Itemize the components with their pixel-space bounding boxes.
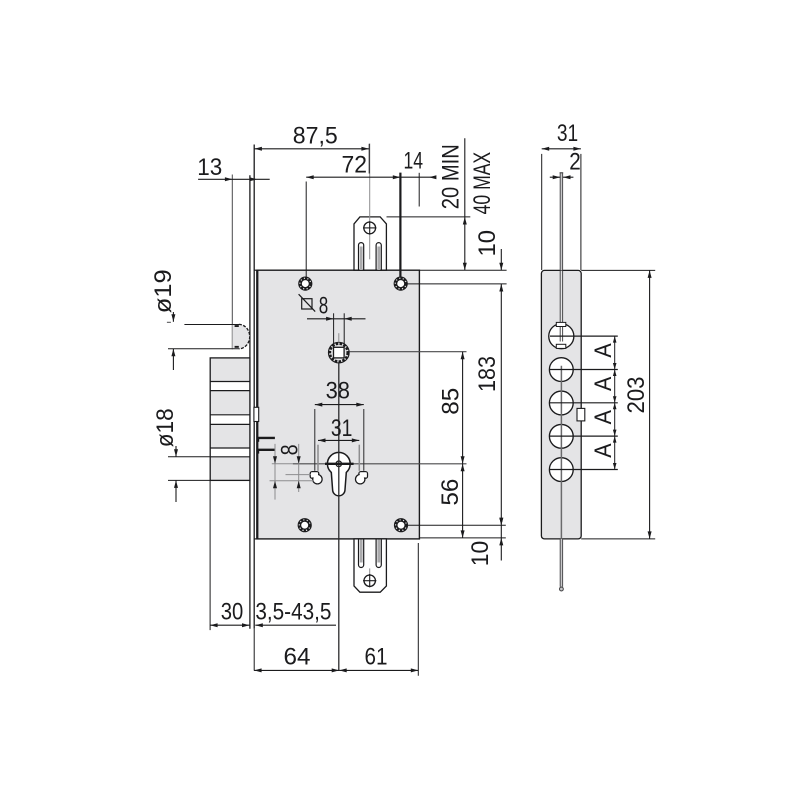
latch bolt (front view)	[232, 324, 249, 348]
dimension o19	[150, 269, 239, 370]
svg-text:2: 2	[569, 149, 581, 176]
dimension 61	[339, 543, 418, 676]
dimension 30	[210, 480, 249, 630]
svg-text:183: 183	[474, 356, 501, 392]
svg-text:87,5: 87,5	[293, 122, 338, 149]
dimension A spacing	[590, 336, 617, 469]
svg-text:30: 30	[221, 599, 244, 626]
dimension 31 plate	[542, 120, 581, 270]
dimension 64	[254, 643, 339, 672]
keyhole centerline horizontal	[272, 463, 467, 465]
svg-text:31: 31	[331, 415, 353, 442]
control rod inside plate	[560, 366, 562, 539]
square follower 8mm	[328, 342, 349, 363]
dimension o18	[152, 408, 210, 502]
faceplate side view plate	[541, 270, 581, 539]
svg-text:A: A	[590, 443, 617, 457]
control rod upper	[560, 173, 564, 271]
svg-text:8: 8	[277, 444, 304, 455]
dimension 10 bottom	[408, 518, 506, 567]
svg-text:20 MIN: 20 MIN	[438, 144, 465, 209]
dimension 8 keyhole	[273, 444, 304, 500]
dimension 56	[437, 464, 465, 538]
latch reference line	[231, 175, 233, 350]
svg-text:14: 14	[403, 148, 423, 175]
faceplate pointer lines	[258, 438, 276, 454]
left cam pin	[310, 472, 322, 484]
plate edge notch	[577, 408, 585, 421]
dimension 20 MIN / 40 MAX	[387, 138, 507, 284]
svg-text:13: 13	[197, 154, 222, 181]
svg-text:10: 10	[474, 230, 501, 256]
svg-text:ø19: ø19	[150, 269, 177, 313]
dimension 72	[306, 152, 400, 278]
dimension 10 top	[474, 230, 503, 291]
dimension 14	[400, 148, 436, 207]
mounting holes	[298, 277, 407, 532]
svg-text:56: 56	[437, 479, 464, 506]
svg-text:31: 31	[557, 120, 578, 147]
keyhole centerline vertical	[338, 363, 340, 671]
dimension 183	[474, 284, 503, 525]
svg-text:ø18: ø18	[152, 408, 179, 447]
deadbolt block (4 bolts)	[210, 358, 250, 481]
dimension 31 cylinder	[318, 415, 359, 471]
svg-text:A: A	[590, 410, 617, 424]
right cam pin	[356, 472, 368, 484]
dimension 2 rod	[550, 149, 581, 180]
svg-text:203: 203	[623, 377, 650, 414]
dimension 3,5-43,5	[255, 599, 336, 628]
svg-text:72: 72	[342, 152, 368, 179]
plate hole 1 with latch notches	[549, 271, 574, 349]
bottom fixing tab with slots	[354, 539, 386, 592]
top tab screw hole	[363, 221, 376, 234]
svg-text:40 MAX: 40 MAX	[469, 152, 496, 215]
faceplate edge lines (front view)	[250, 145, 257, 671]
top fixing tab with slots	[354, 144, 386, 271]
cylinder keyhole	[327, 452, 350, 495]
svg-text:61: 61	[365, 643, 388, 670]
dimension 85	[438, 352, 465, 464]
dimension 13	[197, 154, 269, 182]
cam guide lines	[270, 475, 315, 481]
dimension square 8	[299, 292, 366, 343]
hole centerlines	[549, 336, 618, 469]
lock body	[257, 270, 419, 539]
svg-text:10: 10	[467, 541, 494, 567]
follower centerline horizontal	[349, 351, 466, 353]
plate holes 2-5	[549, 358, 573, 482]
dimension 38	[315, 378, 364, 471]
svg-text:3,5-43,5: 3,5-43,5	[255, 599, 331, 626]
follower centerline vertical	[338, 333, 340, 342]
svg-text:A: A	[590, 377, 617, 391]
faceplate notch	[254, 407, 259, 421]
svg-text:8: 8	[319, 292, 329, 319]
svg-text:85: 85	[438, 388, 465, 415]
dimension 203	[581, 270, 655, 539]
control rod lower	[560, 539, 564, 591]
bottom tab screw hole	[363, 574, 376, 587]
svg-text:A: A	[590, 343, 617, 357]
svg-text:64: 64	[284, 643, 311, 670]
svg-text:38: 38	[326, 378, 350, 405]
dimension 87,5	[254, 122, 369, 173]
